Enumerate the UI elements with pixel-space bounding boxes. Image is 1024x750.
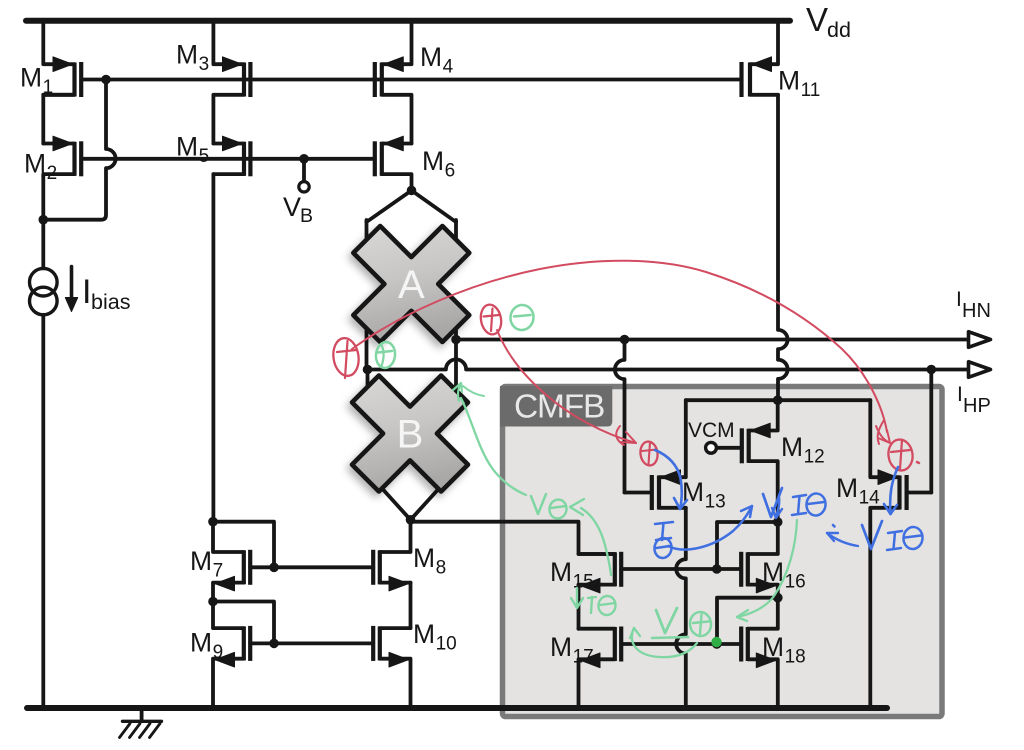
- svg-text:14: 14: [859, 488, 881, 509]
- svg-text:B: B: [397, 413, 424, 457]
- wire block B left stub: [366, 370, 370, 397]
- annotation blue arrow below M14 red plus: [884, 467, 898, 514]
- wire M13 gate lead: [625, 491, 652, 495]
- node M13 gate on IHN: [620, 335, 630, 345]
- label M10: [413, 619, 457, 655]
- transistor M15: [579, 552, 622, 629]
- terminal VB: [299, 159, 309, 192]
- svg-text:1: 1: [43, 77, 54, 98]
- wire block A left stub lower to IHP node: [365, 306, 369, 370]
- annotation green curve B to Vtheta: [461, 398, 526, 495]
- svg-text:HP: HP: [963, 395, 991, 417]
- svg-text:17: 17: [573, 647, 594, 668]
- label M5: [176, 132, 209, 168]
- transistor M6: [375, 136, 412, 190]
- wire M2 gate-drain connection: [81, 78, 106, 82]
- label M12: [781, 432, 825, 468]
- svg-text:8: 8: [436, 558, 447, 579]
- wire gate bus M9-M10: [250, 642, 373, 646]
- annotation red circled plus at M13: [639, 440, 659, 466]
- label M16: [762, 557, 806, 593]
- svg-text:M: M: [550, 557, 572, 587]
- label M11: [778, 66, 820, 102]
- node VB tap: [299, 154, 309, 164]
- svg-text:18: 18: [785, 647, 806, 668]
- wire M8 source to M10 drain: [409, 583, 413, 629]
- annotation blue swoosh M13 to sqrt: [668, 506, 752, 550]
- svg-text:M: M: [413, 543, 435, 573]
- transistor M12: [742, 400, 778, 522]
- label M17: [550, 632, 594, 668]
- wire block A left stub upper: [365, 220, 369, 262]
- svg-text:I: I: [957, 383, 963, 406]
- transistor M10: [373, 626, 410, 708]
- annotation green V plus label: [652, 608, 712, 638]
- label IHN: [956, 288, 991, 322]
- wire gate bus M7-M8: [250, 565, 373, 569]
- svg-text:15: 15: [573, 572, 594, 593]
- transistor M5: [213, 136, 250, 176]
- Vdd power rail: [26, 18, 790, 24]
- annotation green label Vtheta: [531, 494, 568, 520]
- svg-text:M: M: [778, 66, 800, 96]
- wire M7 diode connection: [213, 522, 274, 568]
- node M14 gate on IHP: [927, 365, 937, 375]
- svg-text:CMFB: CMFB: [514, 389, 604, 426]
- annotation green curve Vtheta to M15: [581, 508, 611, 575]
- label IHP: [957, 383, 991, 417]
- svg-text:12: 12: [804, 447, 825, 468]
- annotation green curve to diode node: [737, 520, 797, 621]
- label M14: [836, 473, 880, 509]
- svg-text:A: A: [398, 263, 425, 307]
- node on gate bus M17-M18 (diode tie): [712, 639, 722, 649]
- annotation red circled plus near IHP left node: [331, 336, 361, 378]
- svg-text:10: 10: [436, 634, 457, 655]
- label M7: [190, 546, 223, 582]
- annotation blue hook at M13 red plus: [655, 450, 687, 509]
- current source Ibias: [30, 268, 58, 314]
- ground symbol: [120, 708, 162, 738]
- wire M14 gate riser: [929, 370, 933, 493]
- label VCM: [688, 419, 735, 442]
- svg-text:V: V: [283, 192, 301, 222]
- svg-text:7: 7: [213, 561, 224, 582]
- svg-text:M: M: [413, 619, 435, 649]
- wire M13 drain to ground with hops over gate buses: [676, 508, 686, 708]
- wire M13 gate riser with hop over IHP: [615, 340, 625, 493]
- node M7 gate: [269, 563, 279, 573]
- wire M16 source to gate bus M17-M18: [717, 598, 778, 644]
- transistor M14: [870, 400, 906, 708]
- Ibias arrow: [65, 267, 77, 312]
- CMFB label text: [514, 389, 604, 426]
- svg-text:11: 11: [801, 80, 821, 101]
- Vdd label: [806, 1, 851, 42]
- svg-text:M: M: [176, 40, 198, 70]
- annotation red circled plus at M14: [886, 438, 919, 472]
- svg-text:M: M: [836, 473, 858, 503]
- arrow IHN: [969, 332, 991, 348]
- wire Ibias to ground: [41, 220, 45, 708]
- transistor M9: [213, 602, 250, 709]
- annotation green dot at diode node: [711, 637, 721, 647]
- wire M5 drain to M7 drain: [211, 174, 215, 522]
- arrow IHP: [969, 362, 991, 378]
- ground rail: [27, 705, 887, 711]
- annotation red curve to M13: [497, 330, 636, 445]
- node M12 drain / M16 drain: [773, 517, 783, 527]
- svg-text:16: 16: [785, 572, 806, 593]
- wire M9 diode connection: [213, 602, 274, 644]
- node block B output: [406, 515, 416, 525]
- svg-text:M: M: [190, 546, 212, 576]
- svg-text:M: M: [550, 632, 572, 662]
- wire gate bus M2-M5-M6 with VB tap: [81, 157, 375, 161]
- wire gate bus M15-M16: [621, 567, 741, 571]
- svg-text:B: B: [300, 205, 313, 227]
- svg-text:V: V: [806, 1, 828, 38]
- wire block B output to M15 drain: [411, 520, 615, 554]
- transistor M1: [43, 21, 81, 144]
- label M3: [176, 40, 209, 76]
- node on gate bus M15-M16: [712, 564, 722, 574]
- node block A-B right junction (IHN): [451, 335, 461, 345]
- svg-text:dd: dd: [827, 18, 851, 42]
- block A: [353, 226, 469, 342]
- transistor M11: [742, 21, 779, 97]
- annotation blue Itheta at M13: [653, 522, 673, 559]
- node at M2 drain / bias net: [39, 215, 49, 225]
- label M1: [20, 63, 53, 99]
- annotation green arrowhead after Vtheta: [570, 499, 584, 515]
- wire gate bus M1-M3-M4-M11: [106, 78, 741, 82]
- wire block A top diagonals: [367, 190, 457, 222]
- label M2: [24, 149, 57, 185]
- annotation blue hook left of M14 sqrt: [827, 525, 858, 546]
- node M9 drain: [208, 597, 218, 607]
- wire block A right stub lower to IHN node: [454, 306, 458, 340]
- svg-text:M: M: [781, 432, 803, 462]
- wire M11 drain to CMFB rail with hops over IHN and IHP: [778, 95, 788, 400]
- svg-text:I: I: [956, 288, 962, 311]
- svg-text:M: M: [190, 628, 212, 658]
- wire gate bus down with hop over M2 gate line: [43, 80, 115, 220]
- svg-text:M: M: [422, 146, 444, 176]
- svg-text:HN: HN: [962, 300, 991, 322]
- annotation green circled minus above CMFB: [509, 304, 535, 332]
- label M4: [420, 42, 454, 78]
- wire gate bus M17-M18: [621, 642, 741, 646]
- annotation green circled minus near IHP left node: [375, 341, 397, 369]
- svg-text:M: M: [420, 42, 442, 72]
- svg-text:M: M: [762, 632, 784, 662]
- transistor M8: [373, 520, 410, 591]
- svg-text:3: 3: [199, 54, 210, 75]
- wire IHN output line: [456, 338, 968, 342]
- node M16 source / M18 drain: [773, 593, 783, 603]
- node M9 gate: [269, 639, 279, 649]
- node M1 gate junction: [101, 75, 111, 85]
- annotation green swoosh arrow: [630, 628, 697, 657]
- annotation blue sqrt-I-theta center: [763, 488, 827, 518]
- wire block A right stub upper: [454, 220, 458, 262]
- transistor M17: [579, 627, 622, 709]
- node M6 drain / block A input: [407, 186, 417, 196]
- svg-text:bias: bias: [91, 290, 130, 314]
- wire block B right stub: [454, 340, 458, 397]
- wire IHP output line with hop over AB right wire: [368, 359, 969, 369]
- annotation red curve to M14: [352, 261, 890, 444]
- label M9: [190, 628, 223, 664]
- wire M12 drain to gate bus M15-M16: [717, 522, 778, 569]
- annotation red circled plus above CMFB: [479, 303, 504, 336]
- label M6: [422, 146, 455, 182]
- wire block B bottom vee: [358, 462, 463, 520]
- svg-text:4: 4: [443, 57, 454, 78]
- CMFB block box: [503, 387, 943, 717]
- label M15: [550, 557, 594, 593]
- transistor M4: [375, 21, 412, 144]
- label M8: [413, 543, 446, 579]
- svg-text:9: 9: [213, 642, 224, 663]
- svg-text:2: 2: [47, 163, 58, 184]
- transistor M13: [652, 400, 686, 510]
- svg-text:5: 5: [199, 146, 210, 167]
- CMFB label tab: [500, 386, 612, 427]
- label Ibias: [82, 273, 130, 314]
- transistor M3: [213, 21, 250, 144]
- svg-text:6: 6: [445, 161, 456, 182]
- svg-text:VCM: VCM: [688, 419, 735, 442]
- transistor M7: [213, 522, 250, 602]
- terminal VCM: [706, 442, 742, 453]
- transistor M16: [741, 522, 778, 598]
- wire M14 gate lead: [907, 491, 932, 495]
- svg-text:13: 13: [705, 492, 726, 513]
- svg-text:M: M: [20, 63, 42, 93]
- label M18: [762, 632, 806, 668]
- transistor M18: [741, 598, 778, 708]
- block B: [352, 376, 468, 492]
- node CMFB rail / M11 drain: [773, 395, 783, 405]
- annotation green Itheta under M15: [571, 588, 617, 616]
- transistor M2: [43, 136, 81, 220]
- annotation blue sqrt-I-theta at M14: [862, 521, 924, 550]
- wire CMFB top rail: [686, 398, 871, 402]
- svg-text:M: M: [24, 149, 46, 179]
- annotation green arrow at block B tap: [453, 383, 484, 401]
- label M13: [682, 477, 726, 513]
- node block A-B left junction (IHP): [363, 365, 373, 375]
- node M7 drain: [208, 517, 218, 527]
- label VB: [283, 192, 313, 227]
